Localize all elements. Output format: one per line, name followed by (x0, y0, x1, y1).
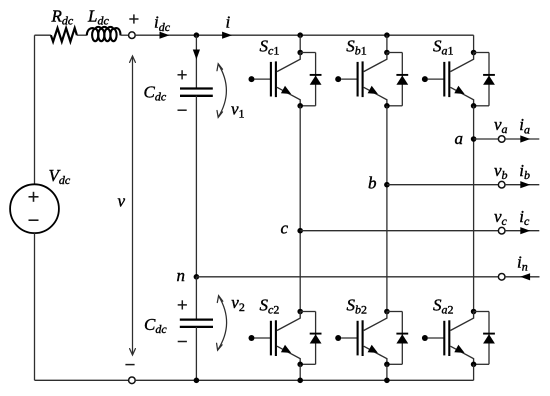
label v2 (231, 293, 245, 314)
label in (517, 252, 528, 273)
label Ldc (87, 6, 109, 27)
label b (368, 174, 377, 193)
junction (bottom rail, leg c) (297, 378, 303, 384)
node (emitter junction Sa2) (471, 362, 477, 368)
node (emitter junction Sa1) (471, 103, 477, 109)
svg-text:v: v (118, 192, 126, 211)
voltage arrow v (130, 56, 136, 355)
svg-text:c: c (281, 218, 289, 237)
wire (Cdc upper to node n) (195, 96, 197, 277)
node (collector junction Sc2) (297, 309, 303, 315)
label v1 (231, 100, 245, 121)
node (collector junction Sc1) (297, 50, 303, 56)
label vc (494, 207, 508, 228)
svg-text:a: a (455, 129, 464, 148)
wire (Rdc to Ldc) (77, 34, 87, 36)
wire (leg c midpoint vertical) (299, 106, 301, 312)
wire (left vertical, top) (34, 35, 36, 184)
wire (Sa2 to bottom rail corner) (473, 364, 475, 380)
terminal va (498, 136, 505, 143)
label a (455, 129, 464, 148)
voltage arrow v2 (217, 296, 227, 351)
junction (bottom rail, leg b) (384, 378, 390, 384)
resistor Rdc (51, 28, 77, 41)
wire (Sc2 to bottom rail) (299, 364, 301, 380)
wire (top-left corner to Rdc) (35, 34, 51, 36)
node (emitter junction Sb2) (384, 362, 390, 368)
node b (384, 182, 390, 188)
wire (junction to Cdc upper) (195, 35, 197, 88)
terminal (dc-link -) (129, 377, 136, 384)
wire (node b to terminal vb) (387, 184, 499, 186)
node (collector junction Sb1) (384, 50, 390, 56)
transistor Sa1 (422, 53, 474, 106)
wire (node c to terminal vc) (300, 230, 498, 232)
wire (top rail to Sc1) (299, 35, 301, 52)
wire (neutral terminal to output n) (505, 276, 540, 278)
node a (471, 136, 477, 142)
junction (top of dc-link capacitor branch) (194, 32, 200, 38)
wire (node n to Cdc lower) (195, 277, 197, 320)
wire (terminal vc to output c) (505, 230, 540, 232)
node (collector junction Sb2) (384, 309, 390, 315)
wire (bottom rail) (135, 379, 474, 381)
label - (Cdc lower) (178, 341, 187, 343)
label + (Cdc upper) (178, 70, 187, 79)
voltage arrow v1 (217, 64, 226, 118)
transistor Sb2 (335, 311, 387, 364)
label Cdc (lower) (144, 315, 167, 336)
current arrow idc (160, 32, 170, 39)
wire (top rail to Sb1) (386, 35, 388, 52)
terminal (neutral) (498, 274, 505, 281)
capacitor Cdc (upper) (180, 89, 213, 96)
label i (226, 13, 231, 32)
wire (terminal vb to output b) (505, 184, 540, 186)
label - (dc-link negative) (125, 364, 134, 366)
diode (antiparallel with Sa1) (474, 53, 495, 106)
svg-text:i: i (226, 13, 231, 32)
label Sb2 (347, 296, 368, 317)
label v (118, 192, 126, 211)
diode (antiparallel with Sa2) (474, 312, 495, 365)
label + (dc-link positive) (129, 14, 138, 23)
wire (leg b midpoint vertical) (386, 106, 388, 312)
label Sa2 (433, 296, 454, 317)
current arrow ic (520, 227, 530, 234)
label Sc2 (260, 296, 280, 317)
current arrow ia (520, 135, 530, 142)
label - (Cdc upper) (178, 109, 187, 111)
wire (top rail corner to Sa1) (473, 35, 475, 52)
transistor Sc2 (249, 311, 301, 364)
current arrow (into capacitor branch) (193, 50, 200, 60)
current arrow in (pointing left) (520, 273, 530, 280)
node c (297, 228, 303, 234)
inductor Ldc (87, 27, 121, 41)
wire (top rail) (135, 34, 474, 36)
wire (node a to terminal va) (474, 138, 499, 140)
label ic (519, 207, 530, 228)
diode (antiparallel with Sc1) (300, 53, 321, 106)
wire (left vertical, bottom) (34, 233, 36, 380)
wire (Ldc to + terminal) (121, 34, 129, 36)
label ib (519, 161, 530, 182)
wire (Cdc lower to bottom rail) (195, 327, 197, 380)
label idc (154, 13, 171, 34)
voltage source Vdc (10, 184, 59, 233)
capacitor Cdc (lower) (180, 320, 213, 327)
diode (antiparallel with Sb2) (387, 312, 408, 365)
junction (capacitor branch on bottom rail) (194, 378, 200, 384)
label Rdc (51, 6, 74, 27)
current arrow ib (520, 181, 530, 188)
wire (node n to terminal) (196, 276, 498, 278)
node (collector junction Sa2) (471, 309, 477, 315)
label c (281, 218, 289, 237)
node (emitter junction Sc2) (297, 362, 303, 368)
transistor Sc1 (249, 53, 301, 106)
terminal vc (498, 227, 505, 234)
current arrow i (222, 32, 232, 39)
diode (antiparallel with Sb1) (387, 53, 408, 106)
label Vdc (49, 166, 71, 187)
transistor Sa2 (422, 311, 474, 364)
transistor Sb1 (335, 53, 387, 106)
label Sc1 (260, 37, 280, 58)
svg-text:b: b (368, 174, 377, 193)
diode (antiparallel with Sc2) (300, 312, 321, 365)
label va (494, 115, 508, 136)
wire (bottom rail, left of terminal) (35, 379, 129, 381)
label n (177, 266, 186, 285)
svg-text:n: n (177, 266, 186, 285)
wire (terminal va to output a) (505, 138, 540, 140)
junction (top rail, leg c) (297, 32, 303, 38)
junction (top rail, leg b) (384, 32, 390, 38)
label Cdc (upper) (144, 82, 167, 103)
label Sa1 (433, 37, 454, 58)
wire (leg a midpoint vertical) (473, 106, 475, 312)
label vb (494, 161, 508, 182)
wire (Sb2 to bottom rail) (386, 364, 388, 380)
node (collector junction Sa1) (471, 50, 477, 56)
node (emitter junction Sb1) (384, 103, 390, 109)
terminal (dc-link +) (129, 32, 136, 39)
label ia (519, 115, 530, 136)
label Sb1 (346, 37, 367, 58)
terminal vb (498, 181, 505, 188)
node n (194, 274, 200, 280)
label + (Cdc lower) (178, 300, 187, 309)
node (emitter junction Sc1) (297, 103, 303, 109)
